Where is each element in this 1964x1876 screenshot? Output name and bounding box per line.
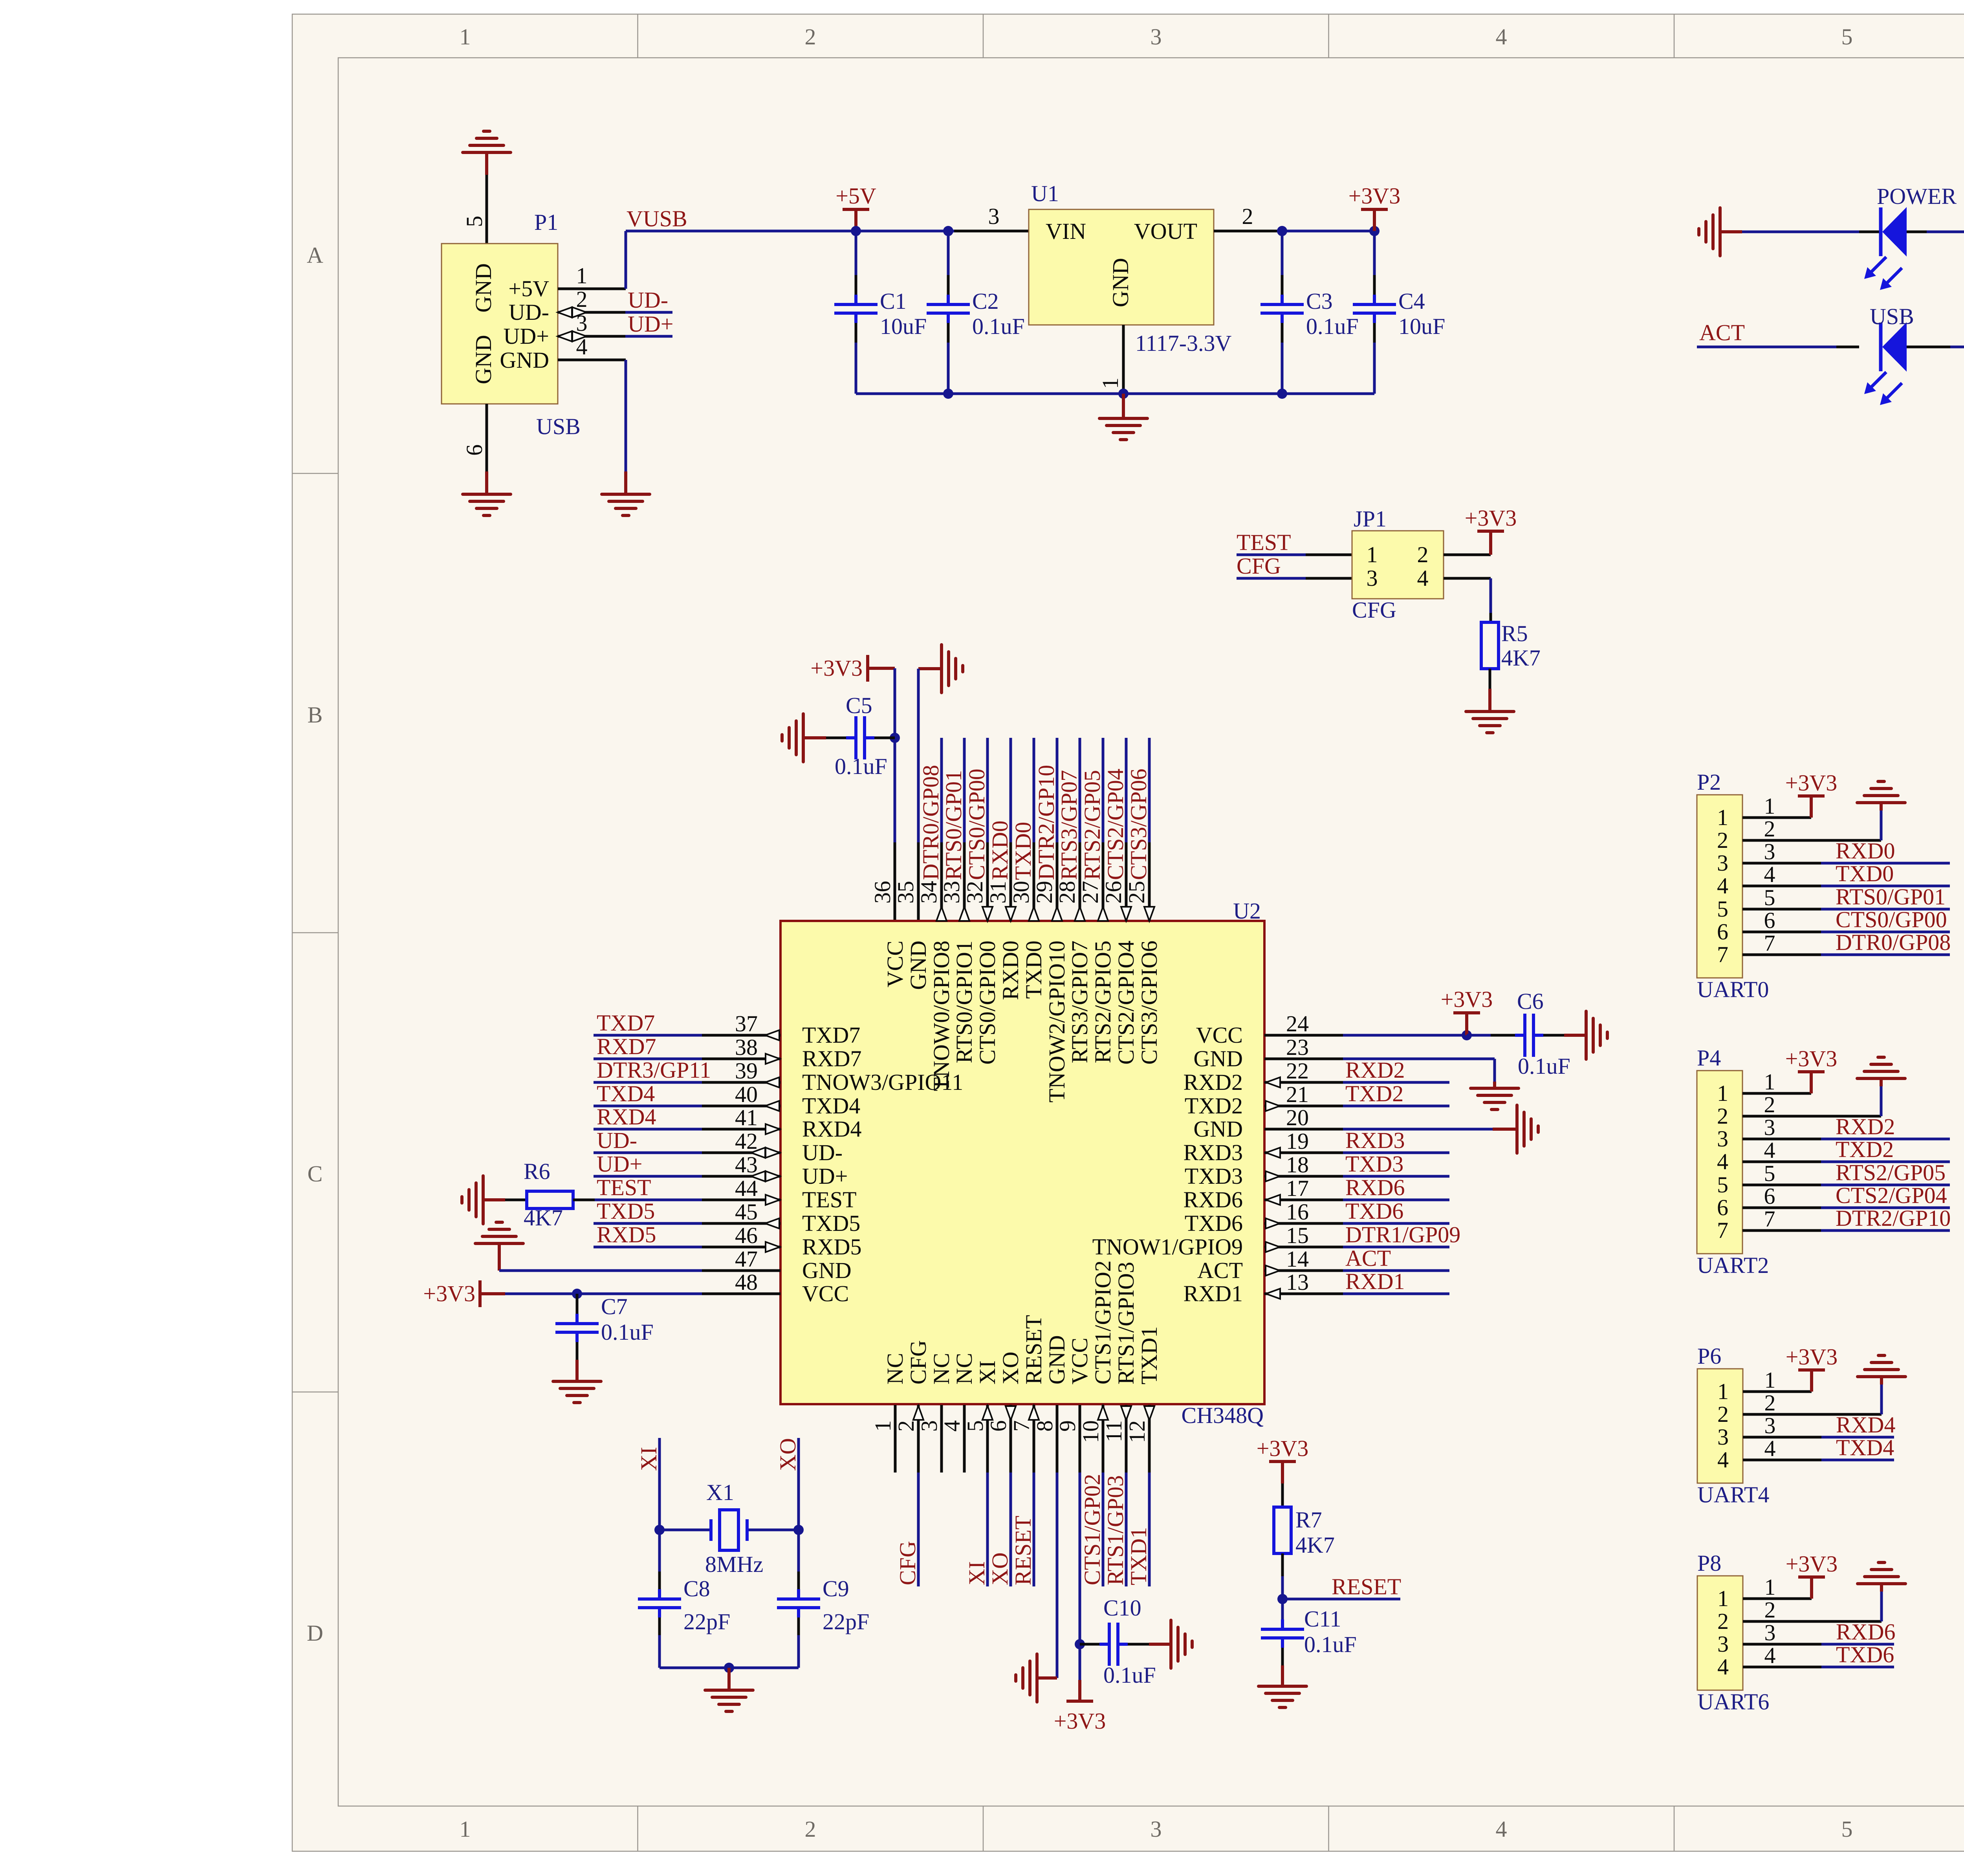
pin 3 (P2) <box>1742 839 1821 864</box>
svg-text:C3: C3 <box>1306 288 1333 314</box>
pin 4 stub (U2 NC) <box>963 1405 966 1473</box>
pin name RXD2 (U2 right) <box>1184 1069 1243 1095</box>
wire DTR2/GP10 (U2 top) <box>1056 738 1059 842</box>
svg-text:26: 26 <box>1101 881 1126 904</box>
pin name TXD6 (U2 right) <box>1185 1210 1243 1236</box>
wire TXD4 (P6) <box>1821 1459 1894 1462</box>
svg-text:6: 6 <box>1717 1195 1728 1220</box>
wire TXD2 (U2 right) <box>1343 1105 1449 1108</box>
pin 26 stub (U2 CTS2/GPIO4) <box>1125 842 1128 921</box>
value 22pF (C8) <box>683 1609 730 1634</box>
wire LED1 to R1 <box>1907 231 1964 233</box>
led POWER <box>1864 207 1907 290</box>
svg-text:13: 13 <box>1286 1269 1309 1295</box>
wire C1 top <box>855 231 857 295</box>
pin 2 (JP1) <box>1444 554 1491 556</box>
svg-text:CTS0/GPIO0: CTS0/GPIO0 <box>975 941 1000 1065</box>
net label CTS1/GP02 (U2 bottom) <box>1079 1474 1105 1585</box>
svg-text:RTS2/GPIO5: RTS2/GPIO5 <box>1090 941 1116 1063</box>
pin 2 (P2) <box>1742 816 1881 842</box>
svg-text:8: 8 <box>1032 1420 1057 1432</box>
label UART4 <box>1697 1482 1769 1507</box>
pin 7 (P4) <box>1742 1206 1821 1232</box>
pin arrow 33 <box>959 907 969 921</box>
svg-text:TEST: TEST <box>597 1175 651 1200</box>
wire DTR3/GP11 (U2 left) <box>594 1081 702 1084</box>
pin name TXD1 (U2 bottom) <box>1136 1326 1162 1385</box>
pin arrow b6 <box>1006 1406 1016 1420</box>
pin 46 (U2 RXD5) <box>702 1223 780 1252</box>
wire C2 bottom <box>947 323 950 394</box>
svg-text:C7: C7 <box>601 1294 628 1319</box>
svg-text:16: 16 <box>1286 1199 1309 1225</box>
svg-text:3: 3 <box>1764 1115 1775 1140</box>
pin arrow 32 <box>982 907 993 921</box>
svg-text:VCC: VCC <box>1196 1022 1243 1048</box>
svg-text:0.1uF: 0.1uF <box>835 754 887 779</box>
capacitor C7 <box>555 1314 599 1342</box>
wire CFG (U2 bottom) <box>917 1473 920 1586</box>
net label RTS2/GP05 (U2 top) <box>1079 770 1105 880</box>
svg-text:C8: C8 <box>683 1576 710 1601</box>
svg-text:37: 37 <box>735 1011 758 1036</box>
svg-text:RTS1/GP03: RTS1/GP03 <box>1103 1475 1128 1585</box>
pin 15 (U2 TNOW1/GPIO9) <box>1264 1223 1343 1252</box>
wire VCC pin24 <box>1343 1034 1467 1037</box>
net label RXD2 (P4) <box>1836 1114 1895 1139</box>
connector P1 <box>442 244 558 404</box>
pin 1 stub (U2 NC) <box>894 1405 897 1473</box>
wire TXD5 (U2 left) <box>594 1222 702 1225</box>
wire pin4 to ground <box>625 360 627 494</box>
svg-text:3: 3 <box>1764 839 1775 864</box>
wire C6 right <box>1543 1034 1586 1037</box>
pin 8 stub (U2 GND) <box>1056 1405 1059 1473</box>
svg-text:45: 45 <box>735 1199 758 1225</box>
ground (U2 pin23) <box>1471 1088 1519 1109</box>
wire RXD2 (U2 right) <box>1343 1081 1449 1084</box>
svg-text:1: 1 <box>1764 1367 1776 1393</box>
svg-text:TXD4: TXD4 <box>597 1081 655 1106</box>
pin 44 (U2 TEST) <box>702 1175 780 1205</box>
svg-text:CH348Q: CH348Q <box>1182 1403 1264 1428</box>
pin 9 stub (U2 VCC) <box>1079 1405 1081 1473</box>
svg-text:NC: NC <box>882 1353 908 1385</box>
svg-text:NC: NC <box>951 1353 977 1385</box>
power +3V3 (P4) <box>1785 1046 1838 1093</box>
capacitor C2 <box>927 295 970 323</box>
pin name RXD0 (U2 top) <box>998 941 1023 1000</box>
label P4 <box>1697 1045 1721 1071</box>
svg-text:TXD2: TXD2 <box>1836 1137 1894 1162</box>
pin name UD- (U2) <box>802 1140 843 1165</box>
svg-text:36: 36 <box>870 881 895 904</box>
svg-text:P6: P6 <box>1697 1343 1721 1369</box>
net label DTR2/GP10 (P4) <box>1836 1205 1951 1231</box>
svg-text:22pF: 22pF <box>683 1609 730 1634</box>
connector P2 <box>1697 795 1742 978</box>
svg-text:U1: U1 <box>1031 181 1059 206</box>
pin 5 (P4) <box>1742 1161 1821 1186</box>
label USB <box>536 414 581 439</box>
svg-text:27: 27 <box>1077 881 1103 904</box>
svg-text:TXD2: TXD2 <box>1345 1081 1403 1106</box>
svg-text:GND: GND <box>471 263 496 313</box>
wire RXD6 (U2 right) <box>1343 1199 1449 1201</box>
ground (P1 pin5 shield) <box>463 131 511 175</box>
wire C6 left <box>1467 1034 1515 1037</box>
wire DTR0/GP08 (P2) <box>1821 954 1950 956</box>
svg-text:9: 9 <box>1055 1420 1080 1432</box>
pin arrow b11 <box>1121 1406 1131 1420</box>
label C10 <box>1103 1595 1141 1621</box>
svg-text:4: 4 <box>1717 873 1728 899</box>
svg-text:C: C <box>308 1161 323 1186</box>
svg-text:GND: GND <box>1193 1046 1243 1071</box>
svg-text:VUSB: VUSB <box>627 206 687 231</box>
pin 18 (U2 TXD3) <box>1264 1152 1343 1181</box>
svg-text:3: 3 <box>1717 1126 1728 1152</box>
junction C6 <box>1462 1030 1472 1040</box>
wire DTR2/GP10 (P4) <box>1821 1229 1950 1232</box>
svg-text:USB: USB <box>536 414 581 439</box>
svg-text:1: 1 <box>1717 805 1728 830</box>
svg-text:47: 47 <box>735 1246 758 1272</box>
svg-text:RXD2: RXD2 <box>1184 1069 1243 1095</box>
wire R6 left <box>505 1199 527 1201</box>
ground (P1 pin4) <box>602 494 650 515</box>
wire VCC pin36 <box>894 668 896 921</box>
svg-text:3: 3 <box>1717 850 1728 876</box>
wire RESET (U2 bottom) <box>1033 1473 1035 1586</box>
svg-text:B: B <box>308 702 323 728</box>
svg-text:2: 2 <box>1764 816 1775 842</box>
resistor R6 <box>527 1191 573 1208</box>
net label TEST (JP1) <box>1237 530 1291 555</box>
label R6 <box>524 1159 550 1184</box>
pin 1 (P6) <box>1743 1367 1812 1393</box>
svg-text:UD+: UD+ <box>504 323 549 349</box>
svg-text:2: 2 <box>1717 1608 1729 1634</box>
capacitor C3 <box>1260 295 1304 323</box>
wire CTS0/GP00 (U2 top) <box>986 738 989 842</box>
pin number 4 (U2) <box>939 1420 965 1432</box>
svg-text:P1: P1 <box>534 209 558 235</box>
pin 12 stub (U2 TXD1) <box>1148 1405 1151 1473</box>
svg-text:TXD7: TXD7 <box>597 1010 655 1036</box>
pin arrow 27 <box>1098 907 1108 921</box>
wire C5 right <box>874 737 895 739</box>
svg-text:6: 6 <box>1764 1183 1775 1209</box>
pin 6 (P2) <box>1742 908 1821 933</box>
label R7 <box>1295 1507 1322 1533</box>
wire GND pin8 <box>1037 1473 1057 1678</box>
pin number 27 (U2) <box>1077 881 1103 904</box>
pin name ACT (U2 right) <box>1197 1258 1243 1283</box>
net label TXD5 (U2 left) <box>597 1198 655 1224</box>
pin number 34 (U2) <box>916 881 942 904</box>
wire TXD7 (U2 left) <box>594 1034 702 1037</box>
pin 42 (U2 UD-) <box>702 1128 780 1158</box>
svg-text:2: 2 <box>805 24 816 50</box>
ground (P4) <box>1857 1057 1905 1078</box>
wire UD+ (U2 left) <box>594 1175 702 1178</box>
power +3V3 (P8) <box>1786 1551 1838 1599</box>
svg-text:42: 42 <box>735 1128 758 1154</box>
pin number 2 (U2) <box>893 1420 919 1432</box>
svg-text:GND: GND <box>1193 1116 1243 1142</box>
pin number 29 (U2) <box>1031 881 1057 904</box>
pin number 7 (U2) <box>1009 1420 1034 1432</box>
capacitor C9 <box>777 1589 820 1617</box>
wire RTS3/GP07 (U2 top) <box>1079 738 1081 842</box>
pin number 35 (U2) <box>893 881 918 904</box>
net label TXD0 (U2 top) <box>1010 822 1036 880</box>
wire UD+ (P1) <box>625 335 672 338</box>
wire TEST (JP1) <box>1237 554 1306 556</box>
svg-text:8MHz: 8MHz <box>705 1551 763 1577</box>
value 4K7 (R5) <box>1501 645 1541 671</box>
pin arrow 28 <box>1075 907 1085 921</box>
svg-text:CFG: CFG <box>1352 597 1396 623</box>
svg-text:+3V3: +3V3 <box>810 655 863 681</box>
svg-text:1117-3.3V: 1117-3.3V <box>1135 330 1232 356</box>
svg-text:C1: C1 <box>880 288 907 314</box>
wire ACT (U2 right) <box>1343 1269 1449 1272</box>
svg-text:XO: XO <box>775 1438 801 1471</box>
power +3V3 (P2) <box>1785 770 1838 818</box>
pin 13 (U2 RXD1) <box>1264 1269 1343 1299</box>
net label RXD4 (U2 left) <box>597 1104 656 1130</box>
svg-text:TXD5: TXD5 <box>597 1198 655 1224</box>
svg-text:35: 35 <box>893 881 918 904</box>
wire C11 top <box>1281 1599 1284 1625</box>
svg-text:+3V3: +3V3 <box>423 1281 475 1306</box>
svg-text:P2: P2 <box>1697 769 1721 795</box>
capacitor C5 <box>846 716 874 759</box>
svg-text:4K7: 4K7 <box>1295 1532 1335 1558</box>
power +3V3 (U1 out) <box>1348 183 1401 231</box>
svg-text:1: 1 <box>1097 378 1123 389</box>
pin 30 stub (U2 TXD0) <box>1033 842 1035 921</box>
svg-text:DTR3/GP11: DTR3/GP11 <box>597 1057 711 1083</box>
svg-text:CTS2/GP04: CTS2/GP04 <box>1836 1183 1947 1208</box>
svg-text:UART6: UART6 <box>1697 1689 1769 1715</box>
svg-text:CTS2/GPIO4: CTS2/GPIO4 <box>1113 941 1139 1065</box>
net label RXD6 (P8) <box>1836 1619 1895 1645</box>
pin name VCC (U2 right) <box>1196 1022 1243 1048</box>
svg-text:43: 43 <box>735 1152 758 1177</box>
net label VUSB <box>627 206 687 231</box>
wire XI <box>658 1438 661 1530</box>
wire crystal ground rail <box>660 1667 799 1669</box>
svg-text:TXD1: TXD1 <box>1136 1326 1162 1385</box>
svg-text:4: 4 <box>1717 1447 1729 1473</box>
svg-text:+3V3: +3V3 <box>1054 1708 1106 1734</box>
svg-text:RXD7: RXD7 <box>802 1046 861 1071</box>
label C6 <box>1517 988 1544 1014</box>
net label RTS1/GP03 (U2 bottom) <box>1103 1475 1128 1585</box>
capacitor C6 <box>1515 1014 1543 1057</box>
svg-text:4K7: 4K7 <box>524 1205 563 1230</box>
power +5V <box>835 183 876 231</box>
svg-text:29: 29 <box>1031 881 1057 904</box>
junction rail C3 <box>1277 389 1287 399</box>
pin 14 (U2 ACT) <box>1264 1246 1343 1276</box>
net label TXD3 (U2 right) <box>1345 1151 1403 1177</box>
svg-text:X1: X1 <box>706 1480 734 1505</box>
svg-text:TXD3: TXD3 <box>1345 1151 1403 1177</box>
svg-text:RTS0/GP01: RTS0/GP01 <box>1836 884 1946 910</box>
svg-text:D: D <box>307 1620 323 1646</box>
label P6 <box>1697 1343 1721 1369</box>
wire RXD5 (U2 left) <box>594 1246 702 1249</box>
svg-text:RTS3/GP07: RTS3/GP07 <box>1056 770 1082 880</box>
wire C2 top <box>947 231 950 295</box>
svg-text:19: 19 <box>1286 1128 1309 1154</box>
net label TXD0 (P2) <box>1836 861 1894 886</box>
pin number 3 (U2) <box>916 1420 942 1432</box>
svg-text:3: 3 <box>1764 1620 1776 1645</box>
svg-text:NC: NC <box>929 1353 954 1385</box>
pin name GND (U2 right) <box>1193 1046 1243 1071</box>
junction XI crystal <box>654 1525 665 1535</box>
capacitor C4 <box>1353 295 1396 323</box>
pin 22 (U2 RXD2) <box>1264 1058 1343 1087</box>
wire RXD0 (U2 top) <box>1009 738 1012 842</box>
pin name GND (U2 bottom) <box>1044 1335 1070 1385</box>
wire RXD6 (P8) <box>1821 1643 1894 1646</box>
svg-text:UD-: UD- <box>509 299 549 325</box>
wire RXD4 (U2 left) <box>594 1128 702 1131</box>
net label RTS3/GP07 (U2 top) <box>1056 770 1082 880</box>
svg-text:2: 2 <box>1717 827 1728 853</box>
wire VCC pin48 <box>505 1293 702 1295</box>
resistor R5 <box>1481 622 1499 669</box>
net label CTS0/GP00 (P2) <box>1836 907 1947 932</box>
pin number 11 (U2) <box>1101 1420 1127 1442</box>
pin name XO (U2 bottom) <box>998 1352 1023 1385</box>
wire GND pin47 <box>499 1269 702 1272</box>
svg-text:1: 1 <box>1764 1574 1776 1600</box>
junction C3 top <box>1277 226 1287 236</box>
pin name GND (U1) <box>1108 258 1133 307</box>
net label CFG (JP1) <box>1237 553 1281 579</box>
pin name RTS3/GPIO7 (U2 top) <box>1067 941 1092 1063</box>
pin 3 (U1 VIN) <box>954 204 1029 231</box>
wire crystal left <box>660 1529 711 1531</box>
svg-text:4: 4 <box>1496 24 1507 50</box>
label P1 <box>534 209 558 235</box>
pin 4 (JP1) <box>1444 577 1491 580</box>
wire C1 bottom <box>855 323 857 394</box>
net label RXD6 (U2 right) <box>1345 1175 1405 1200</box>
capacitor C1 <box>834 295 878 323</box>
value 0.1uF (C11) <box>1304 1632 1357 1657</box>
wire VUSB riser <box>625 231 627 289</box>
svg-text:7: 7 <box>1764 930 1775 956</box>
pin 3 (P6) <box>1743 1413 1821 1438</box>
wire XO (U2 bottom) <box>1009 1473 1012 1586</box>
net label DTR0/GP08 (P2) <box>1836 930 1951 955</box>
junction C4 top <box>1369 226 1380 236</box>
svg-text:RXD2: RXD2 <box>1836 1114 1895 1139</box>
svg-text:RXD2: RXD2 <box>1345 1057 1405 1083</box>
pin 21 (U2 TXD2) <box>1264 1082 1343 1111</box>
net label XO (U2 bottom) <box>987 1552 1013 1585</box>
svg-text:RXD7: RXD7 <box>597 1034 656 1059</box>
svg-text:10uF: 10uF <box>1398 314 1445 339</box>
pin name VCC (U2 bottom) <box>1067 1338 1092 1385</box>
value 10uF (C1) <box>880 314 927 339</box>
power +3V3 (R7) <box>1257 1436 1309 1484</box>
ground (P8) <box>1858 1562 1905 1584</box>
junction RESET <box>1277 1594 1288 1604</box>
wire gnd riser (P4) <box>1880 1078 1883 1116</box>
wire C3 bottom <box>1281 323 1284 394</box>
net label UD- (U2 left) <box>597 1128 637 1153</box>
junction crystal rail <box>724 1663 734 1673</box>
pin name NC (U2 bottom) <box>929 1353 954 1385</box>
svg-text:GND: GND <box>802 1258 852 1283</box>
svg-text:RESET: RESET <box>1332 1574 1401 1599</box>
label POWER <box>1877 183 1957 209</box>
svg-text:0.1uF: 0.1uF <box>972 314 1025 339</box>
svg-text:RXD6: RXD6 <box>1345 1175 1405 1200</box>
svg-text:XI: XI <box>964 1561 989 1585</box>
pin name TNOW2/GPIO10 (U2 top) <box>1044 941 1070 1102</box>
svg-text:+3V3: +3V3 <box>1441 987 1493 1012</box>
power +3V3 (U2 bottom) <box>1054 1701 1106 1734</box>
value 8MHz <box>705 1551 763 1577</box>
svg-text:A: A <box>307 242 323 268</box>
wire XO <box>797 1438 800 1530</box>
ic U2 body <box>780 921 1264 1404</box>
ground (P6) <box>1858 1355 1905 1377</box>
svg-text:2: 2 <box>1717 1103 1728 1129</box>
pin 11 stub (U2 RTS1/GPIO3) <box>1125 1405 1128 1473</box>
pin number 9 (U2) <box>1055 1420 1080 1432</box>
value 0.1uF (C6) <box>1518 1053 1570 1079</box>
pin name GND (pin4) <box>500 347 549 373</box>
pin numbers (P6) <box>1717 1379 1729 1473</box>
pin 17 (U2 RXD6) <box>1264 1175 1343 1205</box>
svg-text:2: 2 <box>1764 1597 1776 1623</box>
wire TEST (U2 left) <box>594 1199 702 1201</box>
svg-text:44: 44 <box>735 1175 758 1201</box>
net label RXD0 (P2) <box>1836 838 1895 864</box>
wire RTS2/GP05 (U2 top) <box>1102 738 1105 842</box>
svg-text:3: 3 <box>576 310 588 336</box>
svg-text:5: 5 <box>1717 1172 1728 1197</box>
pin 19 (U2 RXD3) <box>1264 1128 1343 1158</box>
pin name VCC (U2 top) <box>882 941 908 987</box>
svg-text:DTR2/GP10: DTR2/GP10 <box>1836 1205 1951 1231</box>
pin 1 (P8) <box>1743 1574 1812 1600</box>
svg-text:5: 5 <box>1764 1161 1775 1186</box>
svg-text:0.1uF: 0.1uF <box>1306 314 1359 339</box>
svg-text:2: 2 <box>1242 204 1253 229</box>
svg-text:UART2: UART2 <box>1697 1253 1769 1278</box>
svg-text:RXD5: RXD5 <box>802 1234 861 1260</box>
svg-text:TXD4: TXD4 <box>1836 1435 1894 1460</box>
svg-text:4: 4 <box>1417 565 1429 591</box>
wire gnd riser (P6) <box>1880 1377 1883 1414</box>
pin name RTS0/GPIO1 (U2 top) <box>951 941 977 1063</box>
pin 2 (U1 VOUT) <box>1214 204 1282 231</box>
svg-text:+3V3: +3V3 <box>1348 183 1401 209</box>
net label CTS2/GP04 (P4) <box>1836 1183 1947 1208</box>
